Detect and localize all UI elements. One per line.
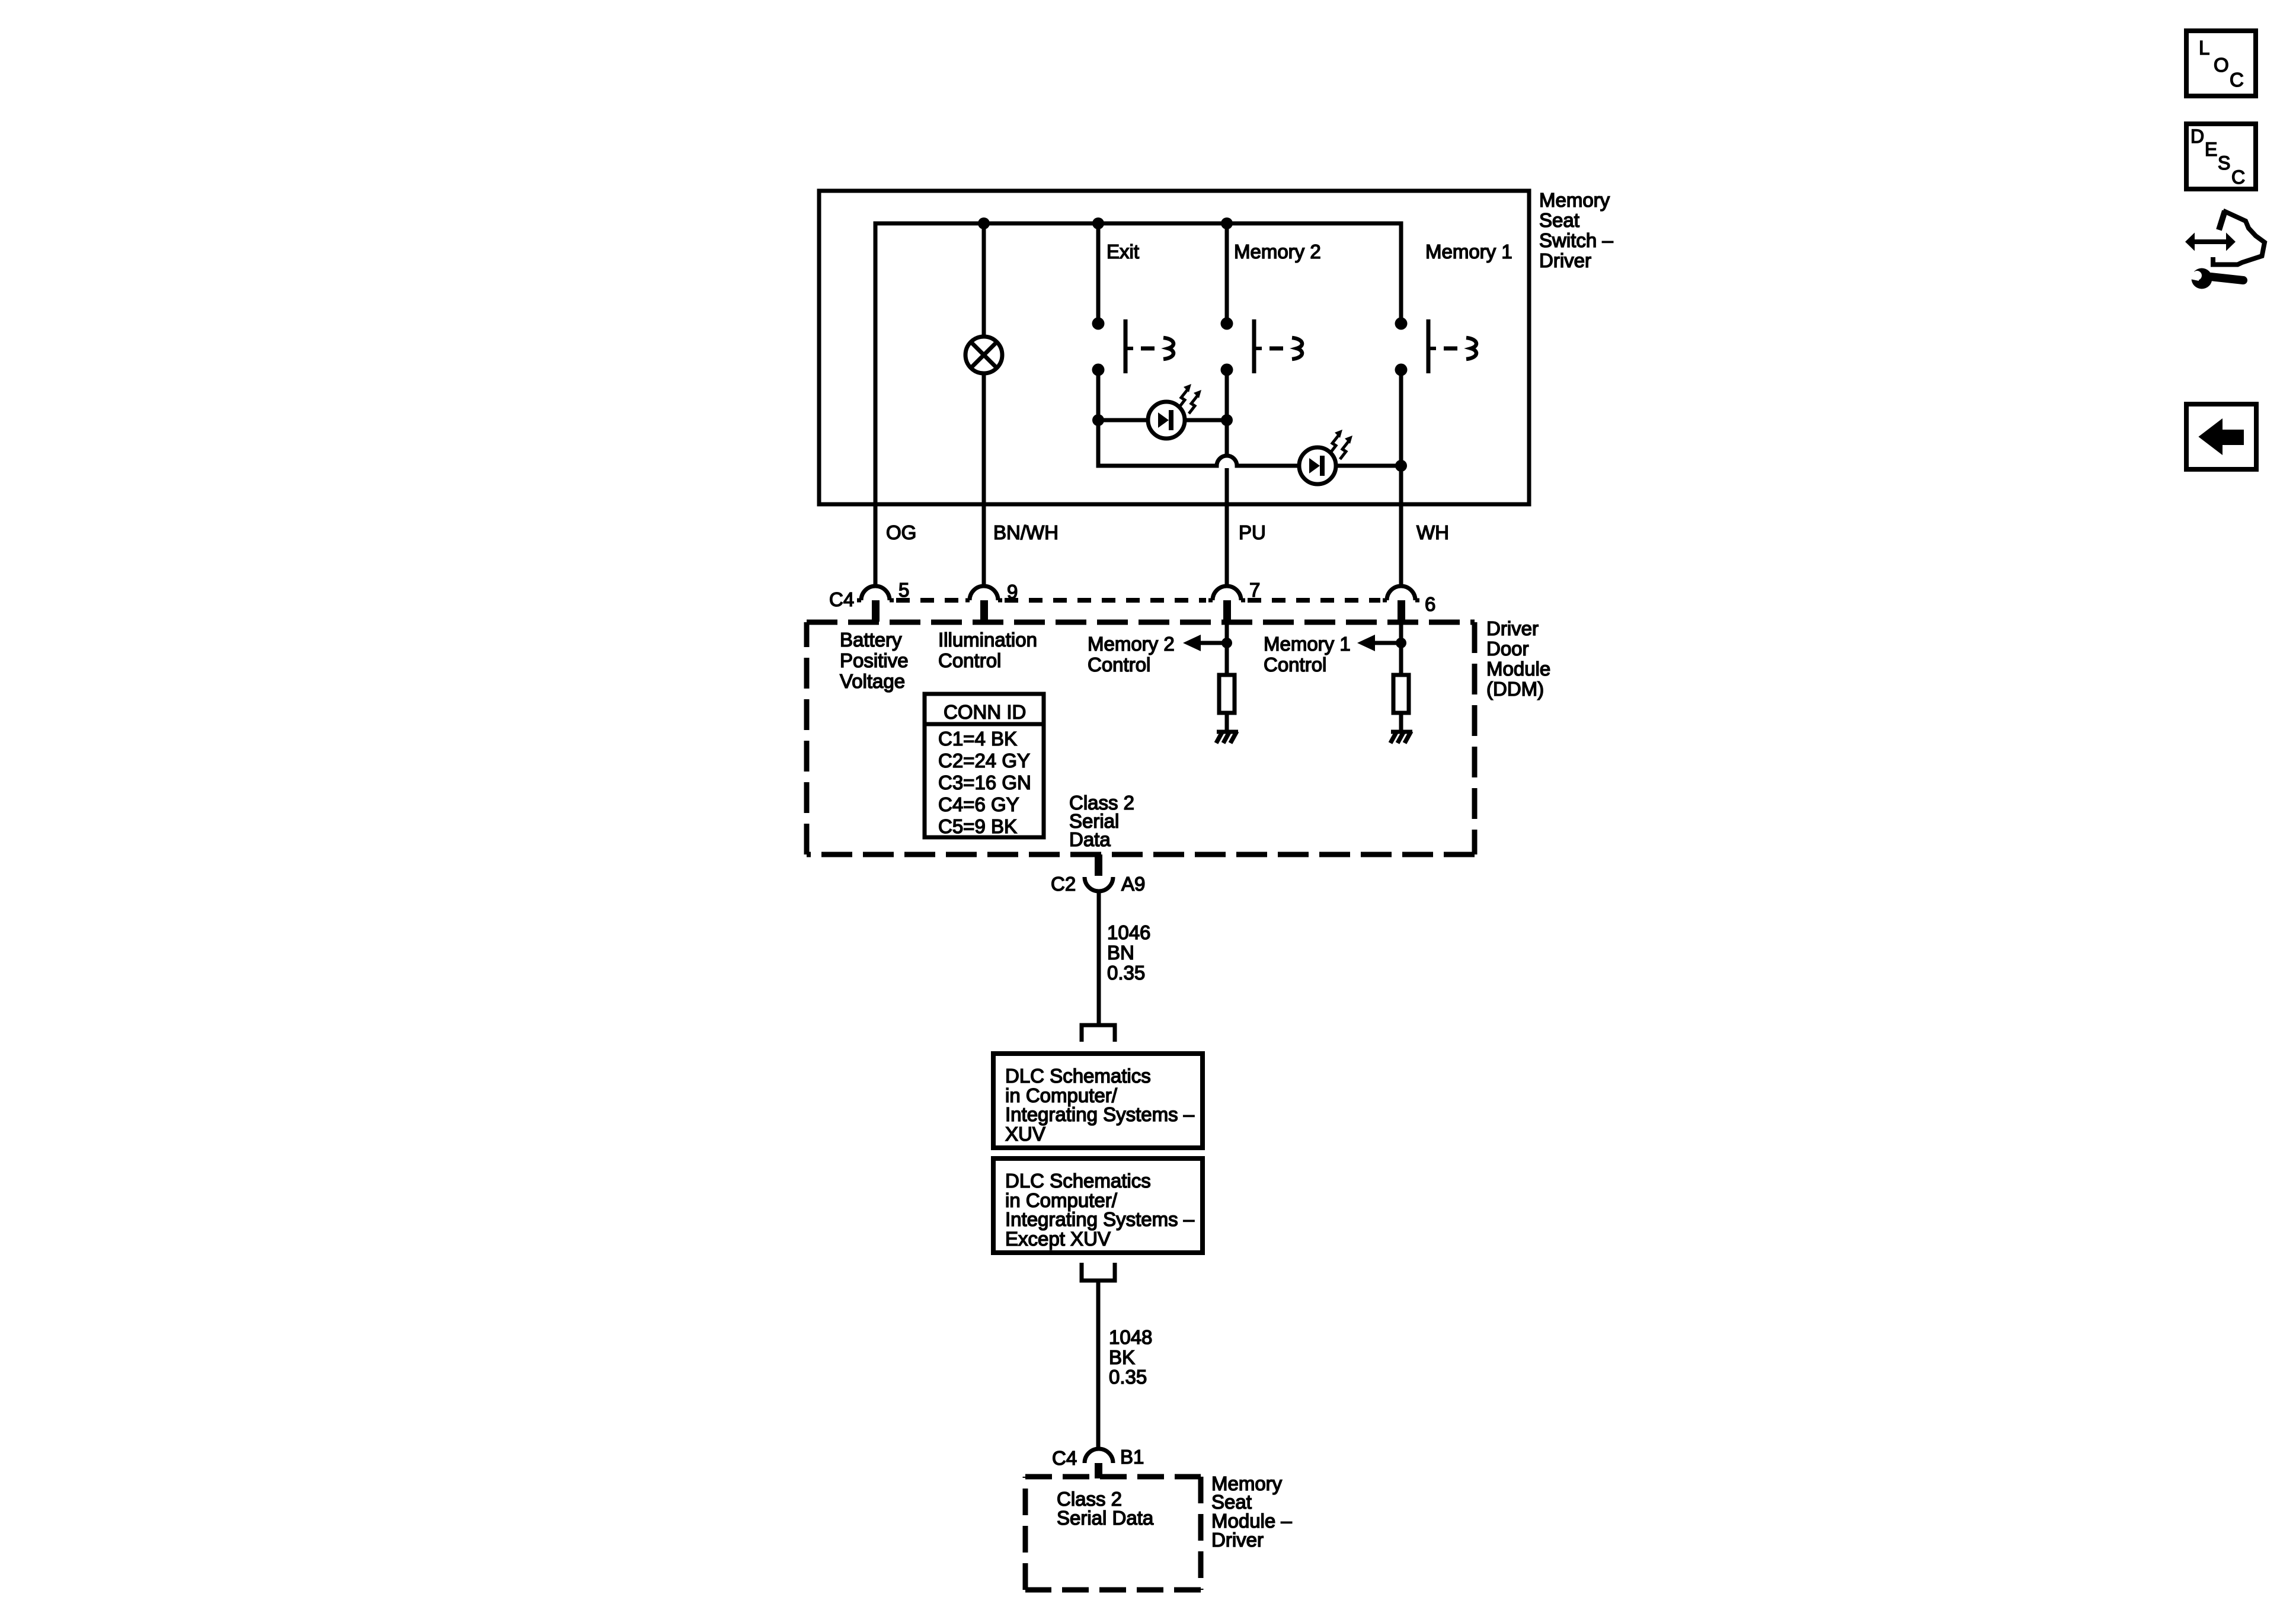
switch Memory 1 bbox=[1395, 318, 1477, 376]
svg-text:Integrating Systems –: Integrating Systems – bbox=[1005, 1103, 1195, 1125]
icon hotlink (double arrow, outline, wrench) bbox=[2185, 211, 2265, 289]
svg-text:BN/WH: BN/WH bbox=[993, 521, 1059, 543]
arrow Memory 1 Control bbox=[1357, 635, 1401, 651]
svg-text:6: 6 bbox=[1425, 593, 1435, 615]
svg-text:5: 5 bbox=[898, 579, 909, 601]
svg-text:Illumination: Illumination bbox=[938, 629, 1037, 651]
module box Memory Seat Switch - Driver bbox=[819, 191, 1529, 504]
svg-text:C3=16 GN: C3=16 GN bbox=[938, 772, 1031, 793]
reference box DLC Schematics Except XUV bbox=[993, 1158, 1203, 1253]
label Driver Door Module (DDM) bbox=[1486, 617, 1550, 700]
svg-text:1046: 1046 bbox=[1107, 921, 1150, 943]
svg-text:XUV: XUV bbox=[1005, 1123, 1045, 1145]
svg-text:C5=9 BK: C5=9 BK bbox=[938, 815, 1017, 837]
svg-text:Voltage: Voltage bbox=[840, 670, 905, 692]
node memory1-arrow junction bbox=[1396, 638, 1406, 648]
svg-text:(DDM): (DDM) bbox=[1486, 678, 1544, 700]
svg-text:Battery: Battery bbox=[840, 629, 902, 651]
svg-text:WH: WH bbox=[1416, 521, 1449, 543]
svg-text:Seat: Seat bbox=[1539, 209, 1579, 231]
svg-text:Except XUV: Except XUV bbox=[1005, 1228, 1111, 1250]
svg-text:Switch –: Switch – bbox=[1539, 229, 1613, 251]
label Class 2 Serial Data (module) bbox=[1057, 1488, 1154, 1529]
connector pin 5 bbox=[857, 586, 894, 622]
switch Exit bbox=[1092, 318, 1174, 376]
off-page connector top bbox=[1082, 1025, 1115, 1042]
ground G1 bbox=[1216, 731, 1238, 743]
resistor R2 (memory 1) bbox=[1393, 675, 1409, 713]
svg-text:Module: Module bbox=[1486, 658, 1550, 680]
svg-text:1048: 1048 bbox=[1109, 1326, 1152, 1348]
label Memory 2 Control bbox=[1088, 633, 1175, 676]
wire LED row 1 bbox=[1098, 418, 1227, 422]
svg-text:Positive: Positive bbox=[840, 649, 909, 671]
svg-text:Memory 1: Memory 1 bbox=[1425, 241, 1512, 263]
svg-text:Memory 2: Memory 2 bbox=[1088, 633, 1175, 655]
icon LOC button bbox=[2186, 31, 2256, 96]
connector pin 9 bbox=[965, 586, 1002, 622]
svg-text:Driver: Driver bbox=[1211, 1529, 1264, 1551]
arrow Memory 2 Control bbox=[1183, 635, 1227, 651]
icon DESC button bbox=[2186, 124, 2256, 189]
LED D2 (Memory 1 indicator) bbox=[1299, 430, 1352, 484]
node row1-memory2 junction bbox=[1221, 414, 1233, 426]
svg-text:Integrating Systems –: Integrating Systems – bbox=[1005, 1208, 1195, 1230]
module box Memory Seat Module - Driver dashed bbox=[1025, 1477, 1201, 1590]
svg-text:Control: Control bbox=[1264, 654, 1326, 676]
svg-text:PU: PU bbox=[1239, 521, 1266, 543]
svg-text:A9: A9 bbox=[1121, 873, 1145, 895]
lamp illumination bulb bbox=[965, 337, 1002, 373]
connector pin 6 bbox=[1383, 586, 1419, 622]
node bus-lamp junction bbox=[978, 217, 990, 229]
ground G2 bbox=[1390, 731, 1412, 743]
svg-text:L: L bbox=[2199, 37, 2209, 59]
svg-text:D: D bbox=[2191, 126, 2204, 147]
wire R1 to ground bbox=[1225, 713, 1229, 732]
svg-text:C: C bbox=[2230, 69, 2244, 91]
svg-text:C2: C2 bbox=[1051, 873, 1076, 895]
CONN ID table bbox=[925, 694, 1044, 837]
connector C4 pin B1 bbox=[1085, 1449, 1113, 1478]
svg-text:BN: BN bbox=[1107, 942, 1134, 964]
wire 1048 BK bbox=[1096, 1281, 1101, 1449]
wire memory1 lower bbox=[1399, 370, 1403, 587]
svg-text:Serial Data: Serial Data bbox=[1057, 1507, 1154, 1529]
svg-text:7: 7 bbox=[1249, 579, 1260, 601]
svg-text:OG: OG bbox=[886, 521, 916, 543]
node bus-memory2 junction bbox=[1221, 217, 1233, 229]
svg-text:C2=24 GY: C2=24 GY bbox=[938, 750, 1030, 772]
connector C2 pin A9 bbox=[1085, 854, 1113, 891]
wire exit to LED rows bbox=[1098, 370, 1401, 466]
svg-text:C4: C4 bbox=[1052, 1447, 1077, 1469]
wire memory2 upper bbox=[1225, 223, 1229, 320]
reference box DLC Schematics XUV bbox=[993, 1054, 1203, 1148]
off-page connector bottom bbox=[1082, 1263, 1115, 1281]
module box Driver Door Module (DDM) dashed bbox=[807, 622, 1475, 854]
LED D1 (Memory 2 indicator) bbox=[1148, 384, 1201, 438]
label 1048 BK 0.35 bbox=[1109, 1326, 1152, 1388]
label Memory 1 Control bbox=[1264, 633, 1351, 676]
label Memory Seat Module - Driver bbox=[1211, 1473, 1292, 1551]
svg-text:Exit: Exit bbox=[1107, 241, 1139, 263]
svg-text:0.35: 0.35 bbox=[1109, 1366, 1147, 1388]
label DLC Schematics in Computer/Integrating Systems - Except XUV bbox=[1005, 1170, 1195, 1250]
wire 1046 BN bbox=[1097, 891, 1101, 1023]
wire WH inside DDM bbox=[1399, 622, 1403, 675]
svg-text:Memory 2: Memory 2 bbox=[1234, 241, 1321, 263]
switch Memory 2 bbox=[1221, 318, 1303, 376]
resistor R1 (memory 2) bbox=[1219, 675, 1235, 713]
svg-text:BK: BK bbox=[1109, 1346, 1135, 1368]
svg-text:C4=6 GY: C4=6 GY bbox=[938, 793, 1019, 815]
svg-text:Memory 1: Memory 1 bbox=[1264, 633, 1351, 655]
svg-text:Door: Door bbox=[1486, 638, 1529, 660]
svg-text:Control: Control bbox=[1088, 654, 1150, 676]
label 1046 BN 0.35 bbox=[1107, 921, 1150, 984]
svg-text:Driver: Driver bbox=[1539, 249, 1591, 271]
wire R2 to ground bbox=[1399, 713, 1403, 732]
wire PU inside DDM bbox=[1225, 622, 1229, 675]
svg-text:C4: C4 bbox=[829, 588, 854, 610]
svg-text:C: C bbox=[2231, 167, 2245, 188]
svg-text:B1: B1 bbox=[1120, 1446, 1144, 1468]
svg-text:Driver: Driver bbox=[1486, 617, 1539, 639]
svg-text:DLC Schematics: DLC Schematics bbox=[1005, 1065, 1151, 1087]
label Illumination Control bbox=[938, 629, 1037, 671]
wire bus (top horizontal) bbox=[875, 223, 1401, 587]
node row2-memory1 junction bbox=[1395, 460, 1407, 472]
label Memory Seat Switch - Driver bbox=[1539, 189, 1613, 271]
wire lamp upper bbox=[982, 223, 986, 338]
svg-text:CONN ID: CONN ID bbox=[944, 701, 1026, 723]
wire memory2 lower (broken at hop) bbox=[1225, 370, 1229, 587]
icon back button bbox=[2186, 404, 2256, 469]
node exit-row1 junction bbox=[1092, 414, 1104, 426]
wire lamp lower bbox=[982, 373, 986, 587]
node bus-exit junction bbox=[1092, 217, 1104, 229]
svg-text:Memory: Memory bbox=[1539, 189, 1610, 211]
svg-text:0.35: 0.35 bbox=[1107, 962, 1145, 984]
wire C4 connector dashed link bbox=[896, 598, 1380, 603]
node memory2-arrow junction bbox=[1221, 638, 1232, 648]
label Class 2 Serial Data (DDM pin) bbox=[1069, 792, 1134, 850]
wire exit upper bbox=[1096, 223, 1101, 320]
svg-text:S: S bbox=[2218, 152, 2230, 174]
svg-text:O: O bbox=[2214, 54, 2229, 76]
svg-text:Control: Control bbox=[938, 649, 1001, 671]
svg-text:Data: Data bbox=[1069, 828, 1111, 850]
label Battery Positive Voltage bbox=[840, 629, 909, 692]
svg-text:DLC Schematics: DLC Schematics bbox=[1005, 1170, 1151, 1192]
connector pin 7 bbox=[1208, 586, 1245, 622]
svg-text:E: E bbox=[2205, 139, 2217, 160]
label DLC Schematics in Computer/Integrating Systems - XUV bbox=[1005, 1065, 1195, 1145]
svg-text:C1=4 BK: C1=4 BK bbox=[938, 728, 1017, 750]
